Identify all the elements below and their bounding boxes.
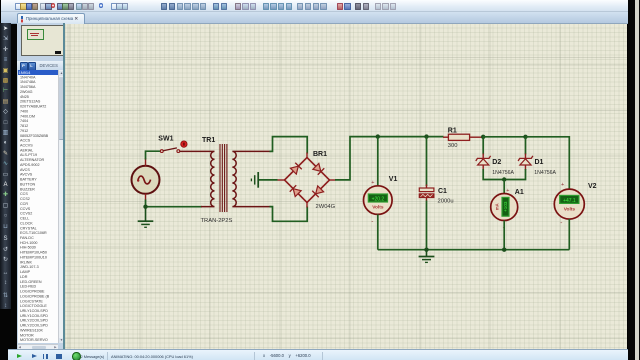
left black background column xyxy=(0,23,17,360)
node bottom A1 xyxy=(502,248,506,252)
wire V1 bottom xyxy=(377,214,379,249)
wire secondary bottom to bridge xyxy=(270,207,308,222)
svg-text:V1: V1 xyxy=(389,176,398,183)
bottom rail wire xyxy=(378,249,570,251)
switch state indicator dot xyxy=(181,141,187,147)
wire D2 top xyxy=(482,137,484,155)
svg-text:+: + xyxy=(371,180,374,186)
voltmeter V1 xyxy=(364,180,393,225)
node D1 xyxy=(523,135,527,139)
wire rail D1 to V2 xyxy=(526,137,570,190)
svg-text:2W04G: 2W04G xyxy=(316,204,336,210)
device panel xyxy=(17,23,64,349)
node bottom C1 xyxy=(424,248,428,252)
wire C1 branch xyxy=(426,137,428,186)
ground terminal (rotated) xyxy=(251,172,258,188)
svg-text:+: + xyxy=(561,182,564,188)
left icon strip xyxy=(0,23,11,309)
transformer TR1 xyxy=(180,144,271,212)
svg-text:V2: V2 xyxy=(588,183,597,190)
svg-text:D2: D2 xyxy=(492,159,501,166)
svg-text:TRAN-2P2S: TRAN-2P2S xyxy=(201,218,233,224)
wire bridge left to ground terminal xyxy=(259,179,278,181)
svg-text:300: 300 xyxy=(448,143,458,149)
wire C1 bottom xyxy=(426,201,428,250)
svg-text:Volts: Volts xyxy=(372,205,384,211)
resistor R1 xyxy=(443,134,483,140)
svg-text:R1: R1 xyxy=(448,127,457,134)
canvas with grid xyxy=(65,23,627,349)
svg-text:+20.2: +20.2 xyxy=(372,197,385,203)
wire A1 bottom xyxy=(503,221,505,250)
wire bridge output to top rail xyxy=(335,137,444,180)
ground xyxy=(138,207,154,228)
switch SW1 xyxy=(160,148,179,153)
toolbar xyxy=(1,0,629,12)
svg-text:TR1: TR1 xyxy=(202,137,215,144)
svg-text:-: - xyxy=(560,220,562,227)
wire zener cathode bus xyxy=(483,169,525,180)
svg-text:SW1: SW1 xyxy=(158,136,173,143)
svg-text:2000u: 2000u xyxy=(438,198,454,204)
tab bar xyxy=(1,12,629,24)
wire A1 top xyxy=(503,180,505,194)
right edges xyxy=(628,0,635,360)
svg-text:-: - xyxy=(371,218,373,225)
wire secondary top to bridge xyxy=(270,137,308,154)
ammeter A1 xyxy=(491,188,518,232)
node C1 xyxy=(424,134,428,138)
svg-text:D1: D1 xyxy=(535,159,544,166)
zener diode D1 xyxy=(518,154,533,171)
svg-text:1N4756A: 1N4756A xyxy=(534,170,556,176)
svg-text:+: + xyxy=(506,188,509,194)
svg-text:Volts: Volts xyxy=(564,207,576,213)
node junction at source bottom xyxy=(143,205,147,209)
svg-text:C1: C1 xyxy=(438,188,447,195)
svg-text:1N4756A: 1N4756A xyxy=(492,170,514,176)
svg-text:+103: +103 xyxy=(503,201,508,212)
svg-text:A1: A1 xyxy=(515,189,524,196)
capacitor C1 xyxy=(419,185,434,202)
alternator V(sin) source xyxy=(132,158,160,201)
node V1 xyxy=(376,134,380,138)
wire V2 bottom xyxy=(568,219,570,250)
zener diode D2 xyxy=(476,154,491,171)
wire D1 top xyxy=(525,137,527,155)
node D2 xyxy=(481,135,485,139)
voltmeter V2 xyxy=(554,182,584,226)
svg-text:BR1: BR1 xyxy=(313,151,327,158)
wire rail D2 to D1 xyxy=(483,136,525,138)
bridge rectifier BR1 xyxy=(278,153,336,208)
wire source bottom node to primary xyxy=(146,200,203,207)
wire V1 branch xyxy=(377,137,379,186)
svg-text:+47.1: +47.1 xyxy=(563,198,576,204)
svg-text:mA: mA xyxy=(494,203,499,210)
status bar xyxy=(8,349,630,360)
ground bottom xyxy=(419,250,435,263)
wire source top to switch xyxy=(146,151,162,159)
node A1 top xyxy=(502,177,506,181)
